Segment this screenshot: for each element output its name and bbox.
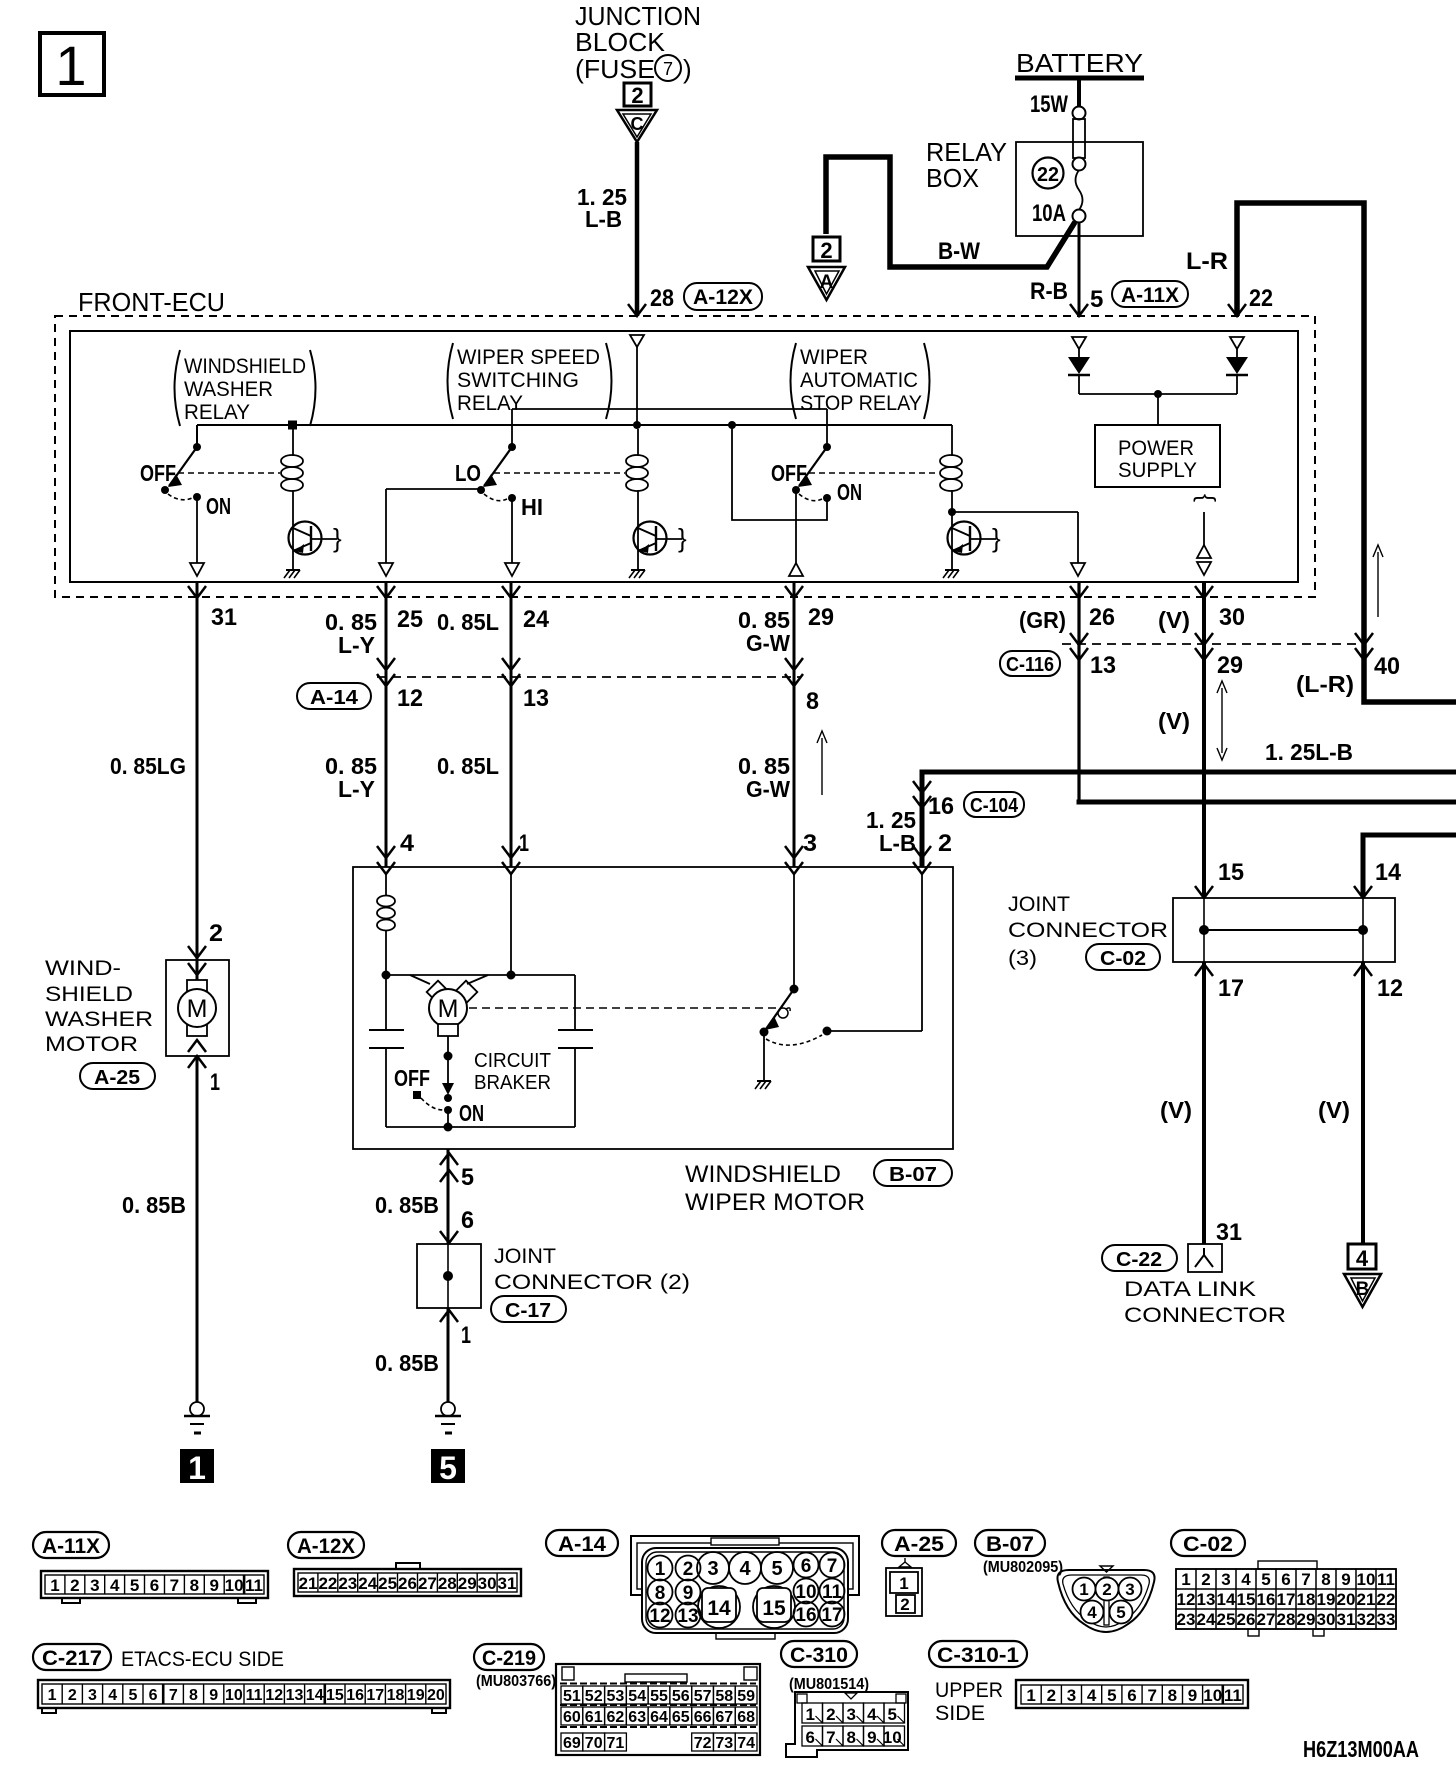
C-116 chevrons wire 26 [1070, 633, 1088, 660]
svg-text:CONNECTOR: CONNECTOR [1008, 919, 1168, 942]
svg-text:C-02: C-02 [1183, 1533, 1233, 1556]
RELAY BOX [926, 137, 1143, 236]
svg-text:27: 27 [418, 1574, 437, 1593]
speed relay ground [629, 570, 645, 578]
C-02 exit chevron wire 12 [1354, 964, 1372, 976]
wire B-W thick [826, 157, 1075, 267]
svg-text:20: 20 [427, 1687, 445, 1704]
svg-text:1: 1 [188, 1450, 206, 1486]
svg-text:14: 14 [1375, 859, 1402, 886]
svg-text:(FUSE: (FUSE [575, 54, 655, 84]
B-07 entry chevrons wire 2 [913, 846, 931, 874]
svg-text:53: 53 [607, 1688, 625, 1705]
wire battery to fuse [1077, 80, 1081, 108]
pin 28 inside marker and wire [630, 335, 644, 425]
pin 31 exit chevron [188, 586, 206, 598]
wiper motor box B-07 [353, 867, 953, 1149]
circuit breaker switch [394, 1036, 484, 1127]
svg-text:4: 4 [1087, 1686, 1097, 1705]
label WIND-SHIELD WASHER MOTOR [45, 957, 153, 1056]
label UPPER SIDE [935, 1679, 1003, 1725]
svg-text:63: 63 [628, 1709, 646, 1726]
svg-text:A: A [820, 272, 834, 293]
svg-text:11: 11 [246, 1687, 263, 1704]
svg-text:17: 17 [1218, 975, 1244, 1002]
rail wire (washer relay feed) [197, 425, 952, 447]
svg-text:4: 4 [1087, 1603, 1097, 1622]
svg-text:8: 8 [655, 1583, 666, 1604]
label WIPER SPEED SWITCHING RELAY [448, 343, 612, 419]
svg-text:8: 8 [846, 1728, 855, 1747]
wire R-B fuse to ECU pin 5 [1078, 222, 1081, 316]
svg-text:C-22: C-22 [1116, 1249, 1162, 1271]
connector A-11X pinout [41, 1571, 268, 1603]
svg-text:FRONT-ECU: FRONT-ECU [78, 287, 225, 317]
svg-text:RELAY: RELAY [184, 401, 250, 424]
svg-text:33: 33 [1377, 1610, 1396, 1629]
svg-text:28: 28 [438, 1574, 457, 1593]
C-17 entry chevron [440, 1231, 458, 1243]
wire pin 30 to joint connector [1202, 583, 1206, 898]
label WIPER AUTOMATIC STOP RELAY [791, 343, 930, 419]
svg-text:R-B: R-B [1030, 278, 1068, 305]
wire junction bar motor top [382, 874, 576, 980]
svg-text:2: 2 [938, 830, 952, 857]
connector label C-02 bottom [1171, 1530, 1245, 1556]
label JOINT CONNECTOR (3) [1008, 893, 1168, 970]
stop relay transistor [948, 522, 1002, 555]
label DATA LINK CONNECTOR [1124, 1278, 1286, 1327]
FRONT-ECU solid box [70, 331, 1298, 582]
svg-text:C-17: C-17 [505, 1300, 551, 1322]
svg-text:HI: HI [521, 494, 543, 520]
svg-text:L-B: L-B [585, 206, 622, 232]
svg-text:(3): (3) [1008, 947, 1037, 970]
pin 30 internal marker [1190, 494, 1217, 575]
wire pin 24 to wiper motor pin 1 [510, 583, 513, 867]
svg-text:2: 2 [209, 920, 223, 947]
washer relay transistor [289, 522, 343, 555]
svg-text:4: 4 [400, 830, 415, 857]
connector label A-12X [288, 1532, 364, 1558]
svg-text:15: 15 [1237, 1590, 1256, 1609]
svg-text:AUTOMATIC: AUTOMATIC [800, 369, 918, 392]
svg-text:10: 10 [795, 1582, 816, 1603]
fuse 10A element [1032, 170, 1086, 227]
svg-text:BLOCK: BLOCK [575, 27, 666, 57]
svg-text:1: 1 [655, 1559, 666, 1580]
svg-text:56: 56 [672, 1688, 690, 1705]
svg-text:C-217: C-217 [42, 1647, 102, 1670]
fusible link 15W [1030, 91, 1086, 171]
svg-text:28: 28 [1277, 1610, 1296, 1629]
connector label C-310 [781, 1641, 857, 1667]
wire label 1.25 L-B [577, 184, 627, 232]
svg-text:5: 5 [771, 1558, 782, 1580]
diode pin 5 branch [1068, 337, 1090, 394]
stop relay dashed link [809, 472, 939, 474]
svg-text:30: 30 [478, 1574, 497, 1593]
pin 25 exit chevron [377, 586, 395, 598]
A-14 chevrons wire 29 [785, 658, 803, 686]
svg-text:5: 5 [1261, 1570, 1270, 1589]
svg-text:B: B [1356, 1279, 1370, 1300]
svg-text:(MU803766): (MU803766) [476, 1673, 556, 1690]
svg-text:67: 67 [715, 1709, 733, 1726]
svg-text:5: 5 [887, 1705, 896, 1724]
connector label A-25 [882, 1530, 956, 1556]
connector A-25 pinout [886, 1558, 922, 1616]
connector A-14 pinout [631, 1536, 859, 1639]
svg-text:22: 22 [318, 1574, 337, 1593]
svg-text:}: } [1190, 494, 1217, 502]
triangle marker C [617, 110, 657, 142]
washer relay switch [140, 443, 231, 576]
washer relay coil [281, 429, 303, 570]
svg-text:40: 40 [1374, 653, 1400, 680]
svg-text:12: 12 [649, 1606, 670, 1627]
connector label B-07 bottom [975, 1530, 1045, 1556]
direction arrow wire 29 [817, 731, 827, 795]
connector label A-11X [33, 1532, 109, 1558]
svg-text:SHIELD: SHIELD [45, 983, 133, 1006]
svg-text:0. 85B: 0. 85B [122, 1192, 186, 1218]
svg-text:17: 17 [821, 1605, 842, 1626]
ground symbol left [184, 1402, 210, 1433]
wire 1.25 L-B from junction block to FRONT-ECU pin 28 [635, 142, 640, 316]
svg-text:10: 10 [1203, 1686, 1222, 1705]
connector label C-17 [491, 1296, 566, 1322]
svg-text:59: 59 [737, 1688, 755, 1705]
svg-text:L-R: L-R [1186, 248, 1228, 275]
svg-text:L-B: L-B [879, 830, 916, 856]
svg-text:5: 5 [439, 1450, 457, 1486]
svg-text:A-12X: A-12X [297, 1535, 355, 1558]
svg-text:17: 17 [366, 1687, 384, 1704]
A-14 chevrons wire 25 [377, 658, 395, 686]
connector C-02 pinout [1176, 1561, 1396, 1636]
svg-text:1: 1 [805, 1705, 814, 1724]
connector label C-104 [964, 792, 1024, 817]
motor link dashed [469, 1007, 776, 1009]
svg-text:1: 1 [1026, 1686, 1035, 1705]
breaker bottom wire [386, 1123, 575, 1132]
connector label C-02 [1086, 944, 1160, 970]
svg-text:26: 26 [1089, 604, 1115, 631]
svg-text:LO: LO [455, 460, 481, 486]
svg-text:14: 14 [707, 1597, 731, 1620]
svg-text:68: 68 [737, 1709, 755, 1726]
C-02 entry chevron wire 14 [1354, 886, 1372, 898]
svg-text:19: 19 [1317, 1590, 1336, 1609]
svg-text:64: 64 [650, 1709, 668, 1726]
label BATTERY [1015, 48, 1144, 78]
svg-text:20: 20 [1337, 1590, 1356, 1609]
connector label C-22 [1102, 1245, 1177, 1271]
svg-text:JOINT: JOINT [1008, 893, 1070, 916]
junction square on rail [288, 421, 297, 430]
svg-text:65: 65 [672, 1709, 690, 1726]
pin 26 exit chevron [1070, 586, 1088, 598]
svg-text:23: 23 [1177, 1610, 1196, 1629]
svg-text:31: 31 [1216, 1219, 1242, 1246]
svg-text:18: 18 [387, 1687, 405, 1704]
svg-text:2: 2 [683, 1559, 694, 1580]
svg-text:WIPER: WIPER [800, 346, 868, 369]
C-116 chevrons wire 30 [1195, 633, 1213, 660]
svg-text:2: 2 [1201, 1570, 1210, 1589]
svg-text:3: 3 [1221, 1570, 1230, 1589]
pin 29 wire from stop switch [789, 490, 803, 576]
POWER SUPPLY box [1095, 425, 1220, 487]
wire pin 29 to wiper motor pin 3 [793, 583, 796, 867]
svg-text:STOP RELAY: STOP RELAY [800, 392, 922, 415]
svg-text:6: 6 [461, 1207, 474, 1234]
svg-text:29: 29 [458, 1574, 477, 1593]
svg-text:M: M [438, 995, 459, 1023]
svg-text:(GR): (GR) [1019, 607, 1066, 633]
svg-text:2: 2 [1047, 1686, 1056, 1705]
connector label A-12X [684, 283, 762, 310]
B-07 entry chevrons wire 1 [502, 846, 520, 874]
ground symbol middle [435, 1402, 461, 1433]
svg-text:0. 85B: 0. 85B [375, 1350, 439, 1376]
svg-text:11: 11 [245, 1576, 263, 1595]
svg-text:31: 31 [1337, 1610, 1356, 1629]
label JUNCTION BLOCK (FUSE 7) [575, 1, 701, 84]
svg-text:CONNECTOR: CONNECTOR [1124, 1304, 1286, 1327]
svg-text:(V): (V) [1158, 708, 1190, 734]
svg-text:25: 25 [1217, 1610, 1236, 1629]
A-14 chevrons wire 24 [502, 658, 520, 686]
wiper motor M [427, 981, 478, 1036]
svg-text:WIND-: WIND- [45, 957, 121, 980]
svg-text:OFF: OFF [771, 460, 807, 486]
stop relay ground [943, 570, 959, 578]
svg-text:57: 57 [694, 1688, 712, 1705]
svg-text:60: 60 [563, 1709, 581, 1726]
svg-text:WASHER: WASHER [45, 1008, 153, 1031]
svg-text:16: 16 [346, 1687, 364, 1704]
direction arrow double [1217, 681, 1227, 760]
svg-text:8: 8 [1168, 1686, 1177, 1705]
connector label A-25 [80, 1063, 155, 1089]
svg-text:ETACS-ECU SIDE: ETACS-ECU SIDE [121, 1648, 284, 1671]
svg-text:3: 3 [1125, 1580, 1134, 1599]
svg-text:C-310-1: C-310-1 [937, 1644, 1019, 1667]
svg-text:WASHER: WASHER [184, 378, 273, 401]
svg-text:2: 2 [1102, 1580, 1111, 1599]
svg-text:26: 26 [398, 1574, 417, 1593]
svg-text:21: 21 [299, 1574, 318, 1593]
circled 22 [1033, 158, 1064, 189]
stop relay switch OFF/ON [771, 443, 862, 505]
C-104 chevrons wire 2 [913, 781, 931, 808]
wire pin 26 (GR) elbow to right edge [1077, 583, 1080, 802]
svg-text:29: 29 [808, 604, 834, 631]
connector A-12X pinout [294, 1563, 521, 1596]
svg-text:C-104: C-104 [970, 795, 1019, 817]
connector label C-116 [1000, 651, 1060, 676]
svg-text:8: 8 [190, 1576, 199, 1595]
svg-text:6: 6 [1127, 1686, 1136, 1705]
wire label 0.85 L-Y upper [325, 609, 377, 658]
svg-text:C: C [631, 114, 644, 134]
svg-text:12: 12 [1377, 975, 1403, 1002]
svg-text:4: 4 [108, 1687, 117, 1704]
svg-text:22: 22 [1377, 1590, 1396, 1609]
svg-text:2: 2 [900, 1595, 909, 1614]
connector box 2 (relay box pin) [813, 237, 840, 263]
pin 26 wire from stop relay [952, 512, 1085, 576]
B-07 exit chevrons wire 5 [440, 1153, 458, 1182]
svg-text:3: 3 [88, 1687, 97, 1704]
svg-text:MOTOR: MOTOR [45, 1033, 138, 1056]
joint connector 2 C-17 box [417, 1244, 481, 1308]
label CIRCUIT BRAKER [474, 1050, 551, 1094]
svg-text:15: 15 [762, 1597, 786, 1620]
svg-text:5: 5 [1116, 1603, 1125, 1622]
direction arrow up right side [1373, 545, 1383, 617]
triangle marker A [808, 267, 845, 300]
diode bus wire [1079, 390, 1237, 425]
svg-text:8: 8 [1321, 1570, 1330, 1589]
washer motor exit chevrons [188, 1040, 206, 1068]
svg-text:31: 31 [498, 1574, 517, 1593]
svg-text:12: 12 [1177, 1590, 1196, 1609]
svg-text:3: 3 [90, 1576, 99, 1595]
svg-text:70: 70 [585, 1735, 603, 1752]
svg-text:55: 55 [650, 1688, 668, 1705]
svg-text:7: 7 [1147, 1686, 1156, 1705]
svg-text:(MU802095): (MU802095) [983, 1559, 1063, 1576]
FRONT-ECU dashed border [55, 316, 1315, 597]
svg-text:0. 85L: 0. 85L [437, 753, 499, 779]
svg-text:0. 85B: 0. 85B [375, 1192, 439, 1218]
svg-text:}: } [992, 523, 1001, 553]
svg-text:32: 32 [1357, 1610, 1376, 1629]
svg-text:(V): (V) [1160, 1097, 1192, 1123]
pin 24 wire from HI contact [505, 498, 519, 576]
svg-text:6: 6 [149, 1687, 158, 1704]
svg-text:8: 8 [806, 688, 819, 715]
svg-text:(V): (V) [1318, 1097, 1350, 1123]
ground id box 1 [180, 1449, 214, 1486]
svg-text:10: 10 [1357, 1570, 1376, 1589]
wire C-17 to ground [447, 1308, 450, 1402]
svg-text:10: 10 [883, 1728, 902, 1747]
svg-text:2: 2 [68, 1687, 77, 1704]
svg-text:11: 11 [822, 1582, 843, 1603]
svg-text:(V): (V) [1158, 607, 1190, 633]
svg-text:A-12X: A-12X [693, 286, 753, 309]
svg-text:4: 4 [1356, 1246, 1369, 1271]
wire L-R thick [1237, 203, 1456, 702]
connector box 4 [1348, 1244, 1376, 1271]
svg-text:M: M [187, 995, 208, 1023]
svg-text:1: 1 [1181, 1570, 1190, 1589]
svg-text:14: 14 [306, 1687, 324, 1704]
auto stop switch [760, 874, 832, 1045]
right capacitor [558, 975, 593, 1127]
svg-text:61: 61 [585, 1709, 603, 1726]
connector A-14 dashed line [377, 676, 800, 678]
label WINDSHIELD WIPER MOTOR [685, 1161, 865, 1216]
svg-text:ON: ON [837, 479, 862, 505]
diode pin 22 branch [1226, 337, 1248, 394]
wire 1.25L-B thick horizontal [922, 772, 1456, 867]
connector label C-310-1 [929, 1641, 1027, 1667]
svg-text:10A: 10A [1032, 200, 1066, 227]
svg-text:B-07: B-07 [986, 1533, 1034, 1556]
svg-text:9: 9 [867, 1728, 876, 1747]
speed relay dashed link [494, 472, 625, 474]
connector box 2 (junction block pin) [624, 83, 651, 108]
svg-text:3: 3 [803, 830, 817, 857]
connector label C-219 [474, 1644, 544, 1670]
svg-text:25: 25 [378, 1574, 397, 1593]
svg-text:28: 28 [650, 285, 674, 312]
svg-text:1: 1 [55, 34, 86, 97]
svg-text:SUPPLY: SUPPLY [1118, 459, 1197, 482]
svg-text:24: 24 [1197, 1610, 1216, 1629]
svg-text:OFF: OFF [140, 460, 176, 486]
wire C-02 to data link connector [1202, 962, 1206, 1244]
triangle marker B [1344, 1274, 1381, 1307]
joint connector 3 C-02 box [1173, 898, 1395, 962]
svg-text:4: 4 [739, 1558, 751, 1580]
data link connector pin box [1188, 1244, 1222, 1272]
svg-text:BRAKER: BRAKER [474, 1072, 551, 1094]
connector C-217 pinout [38, 1680, 450, 1713]
svg-text:24: 24 [358, 1574, 377, 1593]
svg-text:G-W: G-W [746, 630, 790, 656]
stop relay coil junction dot [948, 508, 956, 516]
svg-text:19: 19 [407, 1687, 425, 1704]
svg-text:): ) [683, 54, 692, 84]
C-17 exit chevron [440, 1310, 458, 1322]
svg-text:13: 13 [1090, 652, 1116, 679]
C-02 exit chevron wire 17 [1195, 964, 1213, 976]
wire pin14 from right edge [1363, 835, 1456, 898]
label JOINT CONNECTOR (2) [494, 1245, 690, 1294]
chevron at pin 5 entry [1070, 304, 1088, 316]
svg-text:4: 4 [1241, 1570, 1251, 1589]
svg-text:CIRCUIT: CIRCUIT [474, 1050, 551, 1072]
svg-text:2: 2 [70, 1576, 79, 1595]
svg-text:22: 22 [1249, 285, 1273, 312]
svg-text:2: 2 [826, 1705, 835, 1724]
pin 30 exit chevron [1195, 586, 1213, 598]
svg-text:16: 16 [1257, 1590, 1276, 1609]
svg-text:4: 4 [867, 1705, 877, 1724]
svg-text:9: 9 [209, 1576, 218, 1595]
svg-text:C-116: C-116 [1006, 654, 1054, 676]
svg-text:BOX: BOX [926, 163, 979, 193]
svg-text:JOINT: JOINT [494, 1245, 556, 1268]
svg-text:58: 58 [715, 1688, 733, 1705]
svg-text:72: 72 [694, 1735, 712, 1752]
stop relay ON loop wire [732, 425, 827, 520]
svg-text:1: 1 [210, 1069, 220, 1096]
svg-text:7: 7 [826, 1728, 835, 1747]
svg-text:0. 85L: 0. 85L [437, 609, 499, 635]
svg-text:51: 51 [563, 1688, 581, 1705]
svg-text:13: 13 [1197, 1590, 1216, 1609]
svg-text:CONNECTOR (2): CONNECTOR (2) [494, 1271, 690, 1294]
svg-text:1: 1 [1079, 1580, 1088, 1599]
svg-text:52: 52 [585, 1688, 603, 1705]
